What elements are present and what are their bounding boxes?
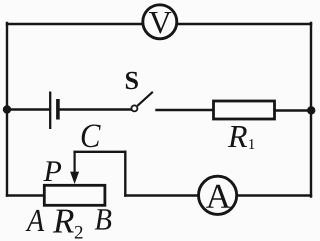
battery cell short plate [56,99,60,120]
battery cell long plate [49,92,51,130]
wire: bottom run to ammeter [125,194,198,196]
switch label S [126,72,138,90]
resistor R1 body [214,101,275,119]
rheostat wiper arrowhead [70,172,79,184]
node label C [82,125,101,148]
wire: wiper node C horizontal run [75,151,126,153]
wire: top-left segment from frame corner to voltmeter [7,23,142,25]
wire: left frame vertical [6,23,8,196]
rheostat label R2 [53,210,83,239]
ammeter label A [206,185,231,208]
junction dot at left frame and middle wire [3,105,11,113]
junction dot at right frame and middle wire [307,106,315,114]
voltmeter V circle [143,5,177,39]
wire: resistor R1 to right frame [275,109,312,111]
wire: battery to switch [60,108,132,110]
voltmeter label V [149,12,171,34]
ammeter A circle [199,176,237,214]
wire: wiper node C vertical drop [124,152,126,196]
switch S blade [137,92,152,106]
resistor label R1 [228,126,255,149]
wire: switch to resistor R1 [157,109,213,111]
terminal label B [95,209,112,229]
wire: ammeter to bottom-right frame corner [237,194,311,196]
wire: right frame vertical [310,23,312,197]
wiper label P [43,161,61,181]
rheostat wiper stem [73,151,75,174]
switch S pivot circle [131,105,137,111]
wire: top-right segment from voltmeter to frame corner [178,23,311,25]
terminal label A [26,210,45,231]
rheostat R2 body [44,185,105,205]
wire: middle from left frame to battery [7,108,49,110]
wire: bottom-left from left frame to rheostat terminal A [7,194,44,196]
